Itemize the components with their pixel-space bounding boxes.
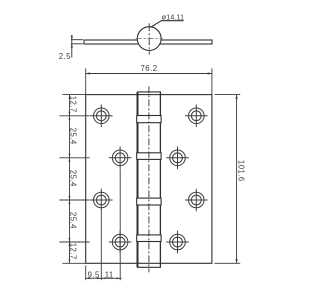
svg-text:11: 11: [105, 270, 114, 279]
svg-text:101.6: 101.6: [237, 160, 246, 182]
svg-text:ø14.11: ø14.11: [162, 13, 184, 22]
svg-text:12.7: 12.7: [68, 243, 77, 260]
svg-text:76.2: 76.2: [141, 64, 158, 73]
svg-text:25.4: 25.4: [68, 170, 77, 187]
svg-text:12.7: 12.7: [68, 96, 77, 113]
svg-text:2.5: 2.5: [59, 52, 71, 61]
svg-text:9.5: 9.5: [88, 270, 100, 279]
svg-text:25.4: 25.4: [68, 212, 77, 229]
svg-text:25.4: 25.4: [68, 128, 77, 145]
